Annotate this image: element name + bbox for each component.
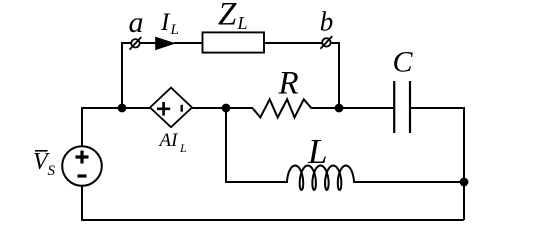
dependent source AIL diamond xyxy=(150,88,192,128)
svg-text:Z: Z xyxy=(218,0,237,33)
junction node right xyxy=(335,104,344,113)
terminal a (circle with slash) xyxy=(130,37,142,50)
wire middle (capacitor to right side) xyxy=(410,108,464,220)
svg-text:C: C xyxy=(393,46,414,79)
diamond plus sign xyxy=(157,102,170,116)
VS minus sign xyxy=(78,174,87,177)
wire ZL box to terminal b xyxy=(264,42,322,44)
svg-text:R: R xyxy=(278,66,299,102)
svg-text:L: L xyxy=(307,132,327,171)
voltage source VS circle xyxy=(62,146,102,186)
junction node bottom right xyxy=(460,178,469,187)
svg-text:AI: AI xyxy=(158,130,180,151)
wire middle left (source top to dependent source) xyxy=(82,108,150,146)
current arrow IL xyxy=(155,37,176,51)
wire terminal b to right corner down to middle xyxy=(331,43,340,108)
junction node center xyxy=(222,104,231,113)
wire inductor to right node xyxy=(353,181,464,183)
wire bottom xyxy=(82,186,464,220)
inductor L coil xyxy=(285,166,356,191)
svg-text:S: S xyxy=(48,163,56,179)
capacitor C plates xyxy=(394,81,410,133)
impedance ZL box xyxy=(203,32,265,52)
wire terminal a to arrow xyxy=(140,42,157,44)
svg-text:I: I xyxy=(160,9,171,36)
resistor R zigzag xyxy=(253,99,312,117)
svg-text:L: L xyxy=(170,22,179,38)
wire top branch left vertical xyxy=(122,43,131,108)
VS overline xyxy=(35,150,48,152)
svg-text:b: b xyxy=(320,7,334,37)
wire arrow to ZL box xyxy=(174,42,203,44)
wire middle (resistor to capacitor) xyxy=(312,107,394,109)
svg-text:L: L xyxy=(179,141,187,155)
wire middle (diamond to resistor) xyxy=(192,107,253,109)
diamond minus tick xyxy=(180,105,182,112)
svg-text:L: L xyxy=(237,13,248,33)
wire inductor branch left xyxy=(226,108,287,182)
VS plus sign xyxy=(76,151,89,164)
terminal b (circle with slash) xyxy=(321,36,333,49)
junction node left xyxy=(118,104,127,113)
svg-text:a: a xyxy=(129,6,144,39)
